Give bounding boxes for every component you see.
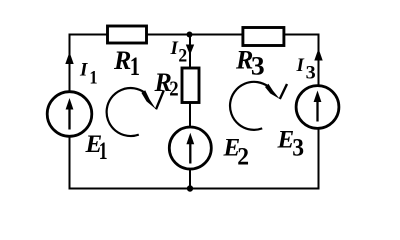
E3 internal arrow — [316, 99, 318, 122]
wire left branch lower — [69, 137, 71, 190]
current arrow I1 (up, on left branch) — [65, 52, 73, 64]
wire middle branch lower — [189, 170, 191, 189]
E1 internal arrow — [68, 106, 70, 130]
source E2 — [169, 127, 211, 169]
loop arrow left mesh — [107, 88, 164, 136]
node dot bottom — [187, 185, 193, 191]
wire middle branch upper — [189, 35, 191, 69]
current arrow I2 (down, on middle branch) — [186, 45, 194, 56]
wire right branch lower — [318, 129, 320, 190]
wire middle branch between R2 and E2 — [189, 103, 191, 128]
resistor R3 — [243, 28, 284, 46]
loop arrow right mesh — [230, 82, 287, 130]
E2 internal arrow — [189, 140, 191, 164]
wire right branch upper — [318, 34, 320, 87]
resistor R1 — [108, 26, 147, 43]
source E3 — [296, 86, 339, 129]
wire bottom (common node) — [70, 188, 319, 190]
node dot top (junction of R1,R3,R2 branch) — [187, 32, 193, 38]
source E1 — [47, 92, 92, 137]
wire left branch upper — [69, 34, 71, 92]
current arrow I3 (up, on right branch) — [314, 49, 322, 61]
wire top (node 1 - node 2 - node 3) — [70, 34, 319, 36]
resistor R2 — [182, 68, 199, 103]
